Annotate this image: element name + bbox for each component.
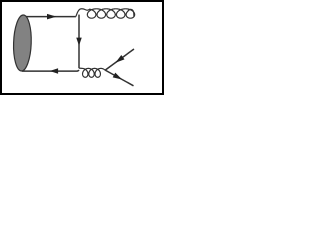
wire: top quark line from blob to top-right vertex — [24, 16, 76, 18]
gluon g1: top coil from top-right vertex to the right — [76, 9, 135, 18]
wire: vertical quark propagator — [78, 15, 80, 69]
background — [0, 0, 165, 96]
border frame — [1, 1, 163, 94]
Feynman diagram: blob with quark loop emitting two gluons, lower gluon splitting to quark pair — [0, 0, 165, 96]
gluon g2: bottom coil from bottom-right vertex to quark-pair vertex — [79, 68, 105, 77]
arrow on top quark line (pointing right) — [47, 14, 57, 20]
arrow on quark leg (pointing away from vertex) — [113, 73, 122, 80]
wire: antiquark leg (upper right) — [105, 49, 134, 70]
blob: gray ellipse (hadron) — [13, 15, 33, 72]
arrow on antiquark leg (pointing toward vertex) — [115, 55, 124, 63]
wire: bottom quark line from bottom-right vertex back to blob — [22, 70, 79, 71]
wire: quark leg (lower right) — [105, 70, 133, 86]
arrow on vertical quark line (pointing down) — [76, 38, 82, 46]
arrow on bottom quark line (pointing left) — [50, 68, 58, 74]
